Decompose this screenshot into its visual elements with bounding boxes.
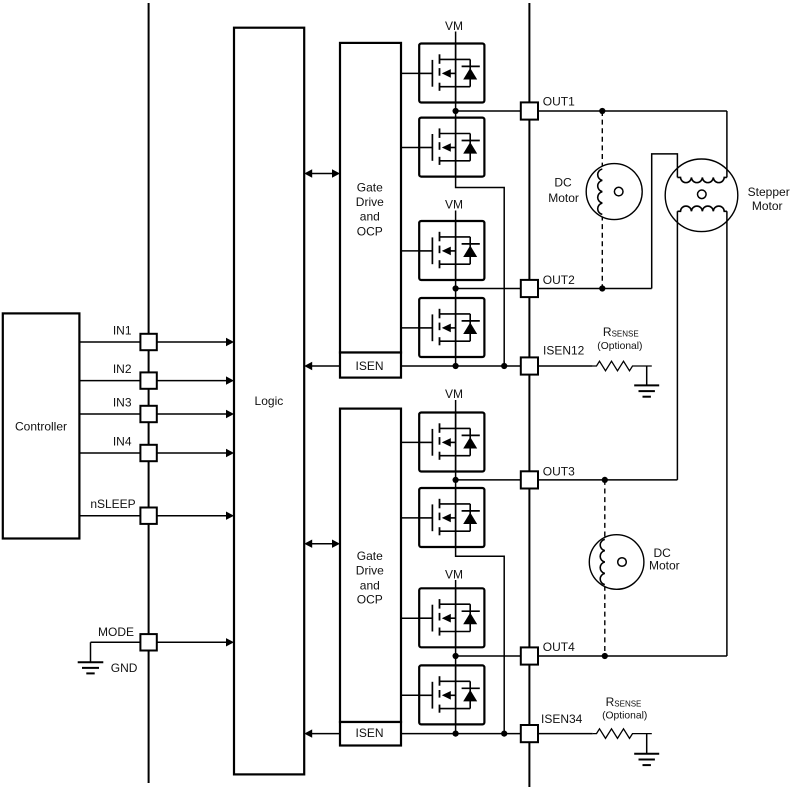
wire stepper winding B right end to OUT4 — [726, 211, 728, 656]
junction OUT2/Q3-Q4 — [453, 285, 459, 291]
stepper motor shaft — [698, 190, 707, 199]
pin OUT2 — [521, 280, 538, 297]
svg-text:Motor: Motor — [649, 558, 680, 572]
svg-text:IN3: IN3 — [113, 396, 132, 410]
dashed load wire OUT3 to DC motor 2 — [604, 480, 606, 539]
label Gate Drive and OCP 1 — [356, 180, 384, 238]
svg-text:ISEN: ISEN — [355, 726, 383, 740]
svg-text:OUT3: OUT3 — [543, 464, 575, 478]
wire OUT1 net — [456, 110, 727, 112]
wire Q1 source to Q2 drain (OUT1 node) — [455, 102, 457, 119]
wire gate drive to Q4 — [401, 327, 420, 329]
svg-text:(Optional): (Optional) — [597, 341, 642, 352]
wire VM supply feed 2 — [455, 211, 457, 223]
resistor RSENSE (channels 3-4, optional) — [593, 729, 652, 739]
transistor Q4 low-side OUT2 — [419, 298, 484, 357]
dashed load wire DC motor 1 to OUT2 — [601, 216, 603, 289]
pin IN2 — [140, 372, 156, 388]
dashed load wire DC motor 2 to OUT4 — [604, 586, 606, 656]
svg-text:VM: VM — [445, 19, 463, 33]
pin IN3 — [140, 406, 156, 422]
wire gate drive to Q6 — [401, 517, 420, 519]
svg-text:VM: VM — [445, 387, 463, 401]
wire MODE (GND tie to Logic) — [91, 641, 228, 643]
svg-text:DC: DC — [554, 176, 572, 190]
ground symbol at RSENSE 2 — [646, 734, 648, 754]
wire VM supply feed 3 — [455, 400, 457, 414]
svg-text:and: and — [360, 579, 380, 593]
wire gate drive to Q7 — [401, 617, 420, 619]
wire Q7 source to Q8 drain (OUT4 node) — [455, 646, 457, 666]
junction OUT1/Q1-Q2 — [453, 108, 459, 114]
junction ISEN12/Q4 — [453, 363, 459, 369]
svg-text:IN1: IN1 — [113, 324, 132, 338]
svg-text:Gate: Gate — [357, 180, 383, 194]
right output bus wire — [528, 3, 530, 787]
wire IN3 (Controller to Logic) — [79, 413, 227, 415]
pin OUT1 — [521, 102, 538, 119]
junction OUT3/motor2 — [602, 477, 608, 483]
svg-text:VM: VM — [445, 567, 463, 581]
svg-text:OUT1: OUT1 — [543, 94, 575, 108]
transistor Q3 high-side OUT2 — [419, 221, 484, 280]
wire OUT3 net — [456, 479, 678, 481]
svg-text:Gate: Gate — [357, 549, 383, 563]
svg-text:OCP: OCP — [357, 592, 383, 606]
wire Q8 source to ISEN34 net — [455, 723, 457, 733]
transistor Q6 low-side OUT3 — [419, 488, 484, 547]
junction OUT4/Q7-Q8 — [453, 653, 459, 659]
transistor Q5 high-side OUT3 — [419, 413, 484, 472]
wire Q6 source jog to ISEN34 net — [456, 546, 505, 734]
block ISEN current sense (channels 3-4) — [340, 722, 401, 746]
svg-text:VM: VM — [445, 198, 463, 212]
junction OUT4/motor2 — [602, 653, 608, 659]
block Logic — [234, 28, 304, 775]
svg-text:ISEN: ISEN — [355, 359, 383, 373]
stepper winding B (bottom) — [677, 206, 727, 211]
DC motor 2 shaft — [618, 558, 627, 567]
dashed load wire OUT1 to DC motor 1 — [601, 111, 603, 168]
wire ISEN feedback 2 to Logic — [311, 733, 340, 735]
svg-text:Drive: Drive — [356, 195, 384, 209]
wire IN1 (Controller to Logic) — [79, 341, 227, 343]
svg-text:GND: GND — [111, 661, 138, 675]
stepper winding A (top) — [677, 177, 727, 182]
wire IN2 (Controller to Logic) — [79, 380, 227, 382]
stepper motor body — [665, 159, 738, 232]
svg-text:ISEN12: ISEN12 — [543, 344, 585, 358]
wire gate drive to Q2 — [401, 147, 420, 149]
svg-text:nSLEEP: nSLEEP — [90, 497, 135, 511]
wire gate drive to Q5 — [401, 441, 420, 443]
svg-text:Drive: Drive — [356, 564, 384, 578]
block U2 Gate Drive and OCP (channels 3-4) — [340, 409, 401, 722]
svg-text:(Optional): (Optional) — [602, 711, 647, 722]
DC motor 1 body — [586, 164, 642, 220]
pin ISEN12 — [521, 357, 538, 374]
svg-text:Motor: Motor — [752, 199, 783, 213]
wire gate drive to Q3 — [401, 250, 420, 252]
transistor Q1 high-side OUT1 — [419, 44, 484, 103]
pin OUT3 — [521, 471, 538, 488]
left pin bus wire — [148, 3, 150, 783]
svg-text:OUT4: OUT4 — [543, 640, 575, 654]
pin IN4 — [140, 445, 156, 461]
svg-text:OCP: OCP — [357, 225, 383, 239]
pin OUT4 — [521, 647, 538, 664]
junction ISEN34/Q6 — [501, 731, 507, 737]
junction ISEN12/Q2 — [501, 363, 507, 369]
svg-text:OUT2: OUT2 — [543, 273, 575, 287]
block ISEN current sense (channels 1-2) — [340, 353, 401, 378]
block Controller — [3, 313, 80, 538]
pin MODE — [140, 634, 156, 650]
wire IN4 (Controller to Logic) — [79, 452, 227, 454]
wire VM supply feed 1 — [455, 32, 457, 45]
block U1 Gate Drive and OCP (channels 1-2) — [340, 43, 401, 353]
junction OUT1/motor1 — [599, 108, 605, 114]
svg-text:RSENSE: RSENSE — [603, 325, 639, 339]
svg-text:MODE: MODE — [98, 625, 134, 639]
transistor Q8 low-side OUT4 — [419, 665, 484, 724]
wire gate drive to Q1 — [401, 72, 420, 74]
wire gate drive to Q8 — [401, 694, 420, 696]
transistor Q7 high-side OUT4 — [419, 588, 484, 647]
wire stepper winding B left end to OUT3 — [676, 211, 678, 480]
svg-text:Motor: Motor — [548, 191, 579, 205]
wire Q3 source to Q4 drain (OUT2 node) — [455, 279, 457, 299]
DC motor 1 shaft — [614, 187, 623, 196]
svg-text:Logic: Logic — [255, 394, 284, 408]
wire OUT2 net — [456, 288, 652, 290]
wire ISEN12 net — [401, 365, 593, 367]
DC motor 2 body — [589, 535, 644, 590]
svg-text:Stepper: Stepper — [748, 185, 790, 199]
label Gate Drive and OCP 2 — [356, 549, 384, 607]
wire nSLEEP (Controller to Logic) — [79, 515, 227, 517]
junction OUT3/Q5-Q6 — [453, 477, 459, 483]
wire ISEN feedback 1 to Logic — [311, 365, 340, 367]
DC motor 1 winding — [598, 169, 603, 214]
bidirectional control arrow Logic to Gate Drive 1 — [311, 173, 333, 175]
wire OUT4 net — [456, 655, 727, 657]
pin IN1 — [140, 334, 156, 350]
resistor RSENSE (channels 1-2, optional) — [593, 361, 652, 371]
label DC Motor 1 — [548, 176, 579, 205]
ground symbol at RSENSE 1 — [646, 366, 648, 385]
wire Q4 source to ISEN12 net — [455, 356, 457, 366]
junction OUT2/motor1 — [599, 285, 605, 291]
label DC Motor 2 — [649, 546, 680, 572]
pin ISEN34 — [521, 725, 538, 742]
wire OUT2 riser and jog to stepper winding A left end — [652, 154, 678, 289]
svg-text:IN4: IN4 — [113, 435, 132, 449]
wire ISEN34 net — [401, 733, 593, 735]
wire Q2 source jog to ISEN12 net — [456, 176, 505, 366]
ground symbol at MODE — [90, 642, 92, 662]
svg-text:RSENSE: RSENSE — [606, 695, 642, 709]
wire Q5 source to Q6 drain (OUT3 node) — [455, 471, 457, 490]
label Stepper Motor — [748, 185, 790, 213]
wire OUT1 drop to stepper winding A right end — [726, 111, 728, 177]
transistor Q2 low-side OUT1 — [419, 118, 484, 177]
junction ISEN34/Q8 — [453, 731, 459, 737]
wire VM supply feed 4 — [455, 580, 457, 589]
svg-text:IN2: IN2 — [113, 362, 132, 376]
svg-text:Controller: Controller — [15, 420, 67, 434]
pin nSLEEP — [140, 508, 156, 524]
svg-text:and: and — [360, 210, 380, 224]
DC motor 2 winding — [600, 539, 605, 584]
bidirectional control arrow Logic to Gate Drive 2 — [311, 543, 333, 545]
svg-text:ISEN34: ISEN34 — [541, 712, 583, 726]
